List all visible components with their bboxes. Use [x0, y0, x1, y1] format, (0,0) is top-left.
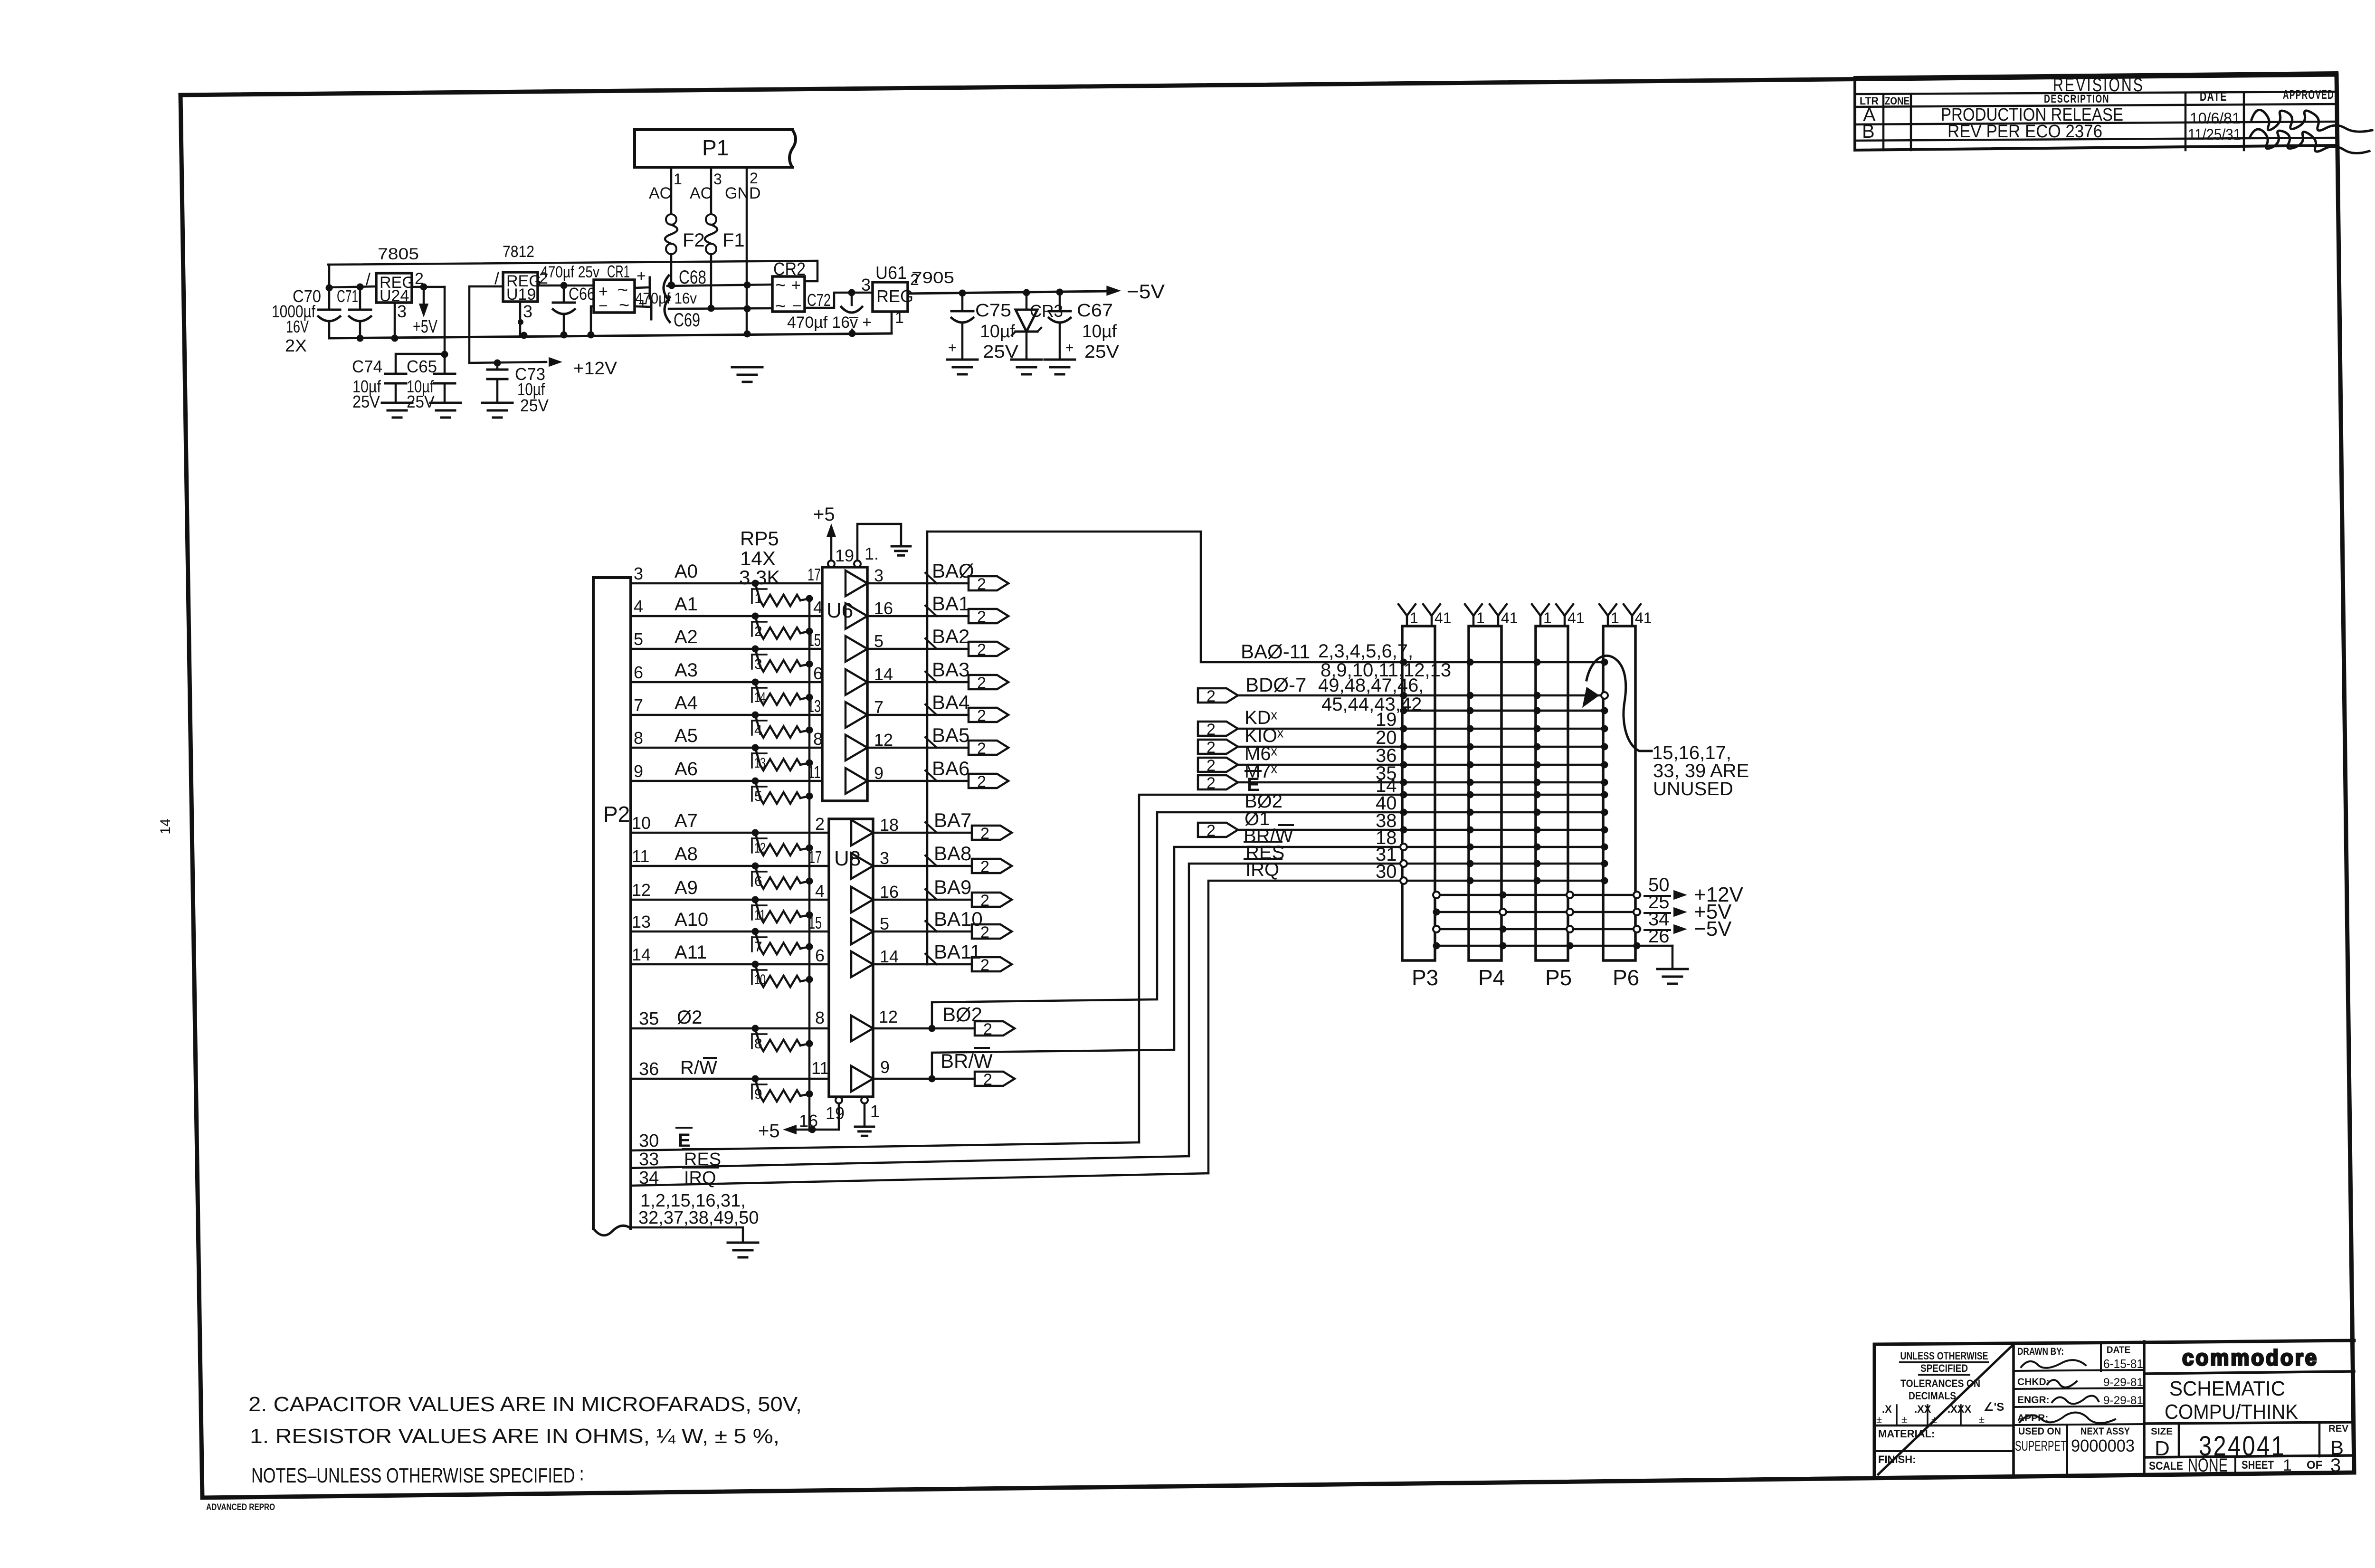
wire -5V output line — [908, 289, 1107, 297]
svg-text:P1: P1 — [702, 135, 729, 160]
connector pin number 38 — [1376, 810, 1397, 831]
P2 pin number 34 — [639, 1168, 659, 1188]
svg-text:+: + — [1065, 340, 1074, 356]
wire IRQ route to connectors — [1208, 881, 1404, 1173]
P4 pin 1 antenna — [1465, 604, 1485, 627]
label 7905 — [912, 269, 954, 287]
svg-text:11: 11 — [632, 846, 649, 866]
+12V label — [573, 359, 617, 379]
P1 pin 1 number — [674, 171, 682, 188]
svg-text:RES: RES — [684, 1150, 721, 1169]
svg-text:12: 12 — [879, 1007, 898, 1026]
svg-text:A10: A10 — [674, 909, 708, 930]
wire BA7 output — [873, 832, 927, 834]
U8 output pin 12 — [879, 1007, 898, 1026]
signal label A1 — [674, 594, 698, 615]
CR2 terminal symbols — [775, 276, 802, 316]
svg-text:SPECIFIED: SPECIFIED — [1920, 1362, 1968, 1374]
signal label A7 — [674, 810, 698, 831]
+5 arrow at U8 — [758, 1121, 797, 1141]
wire BA2 to sheet flag — [927, 648, 969, 650]
svg-text:11: 11 — [754, 907, 766, 923]
net label BØ2 — [942, 1003, 982, 1026]
wire BA4 to sheet flag — [927, 714, 969, 716]
sheet-2 flag BR/W — [975, 1071, 1015, 1089]
svg-text:6: 6 — [754, 874, 762, 889]
P2 pin 14 wire (A11) — [631, 963, 829, 966]
size row line — [2144, 1422, 2354, 1424]
svg-text:2: 2 — [983, 1020, 992, 1038]
C67 plus mark — [1065, 340, 1074, 356]
junction dots row M7ˣ — [1400, 779, 1608, 786]
net label BR/W — [940, 1048, 993, 1072]
connector P5 label — [1545, 965, 1572, 990]
wire bus row E across connectors — [1404, 794, 1605, 796]
U8 output pin 18 — [880, 815, 899, 835]
svg-text:CHKD:: CHKD: — [2017, 1377, 2050, 1387]
svg-text:1.: 1. — [864, 544, 879, 563]
U8 pin 1 stub — [861, 1097, 868, 1126]
revision row B signature — [2250, 129, 2369, 153]
U8 input pin 8 — [815, 1008, 825, 1027]
svg-text:3.3K: 3.3K — [739, 566, 780, 589]
ground under C73 — [482, 403, 513, 418]
note 15,16,17,33,39 ARE UNUSED — [1652, 742, 1749, 799]
net label BA4 — [932, 691, 969, 713]
label 470uf16v (C68/C69 value) — [635, 290, 697, 307]
P2 pin number 14 — [632, 945, 651, 964]
sheet-2 flag M6ˣ — [1198, 757, 1238, 775]
U8 output pin 16 — [880, 882, 899, 902]
svg-text:32,37,38,49,50: 32,37,38,49,50 — [638, 1208, 759, 1228]
RP5 resistor 2 — [752, 613, 813, 640]
bus entry tick BA7 — [925, 822, 937, 833]
title block diagonal — [1878, 1345, 2013, 1474]
U8 buffer triangle BR/W — [851, 1066, 873, 1092]
sheet-2 flag BA10 — [972, 923, 1012, 941]
svg-text:7: 7 — [754, 939, 762, 955]
junction dots row BD-7 lower — [1400, 707, 1608, 714]
U19 pin 2 number — [539, 269, 548, 287]
connector P2 label — [603, 802, 630, 827]
connector P6 label — [1613, 965, 1639, 990]
sheet-2 flag BA1 — [969, 608, 1008, 626]
fuse F1 label — [722, 230, 745, 251]
wire left input drop — [326, 265, 333, 310]
P2 pin number 6 — [634, 663, 643, 682]
svg-text:26: 26 — [1648, 926, 1670, 947]
U6 output pin 3 — [874, 566, 883, 585]
signal label A4 — [674, 693, 698, 713]
ground rail junction dots — [521, 330, 856, 339]
wire +5V power row — [1433, 909, 1641, 916]
bus label BDØ-7 — [1245, 674, 1306, 696]
svg-text:2: 2 — [980, 892, 989, 910]
svg-text:REV PER ECO 2376: REV PER ECO 2376 — [1947, 122, 2102, 142]
title SCHEMATIC — [2169, 1377, 2285, 1400]
capacitor C72 — [841, 293, 862, 313]
svg-text:1: 1 — [1543, 609, 1552, 627]
svg-text:+5: +5 — [758, 1121, 780, 1141]
svg-text:U8: U8 — [834, 847, 861, 870]
ground at connectors — [1657, 969, 1688, 984]
svg-text:19: 19 — [835, 546, 854, 565]
svg-text:36: 36 — [639, 1059, 659, 1079]
P1 pin 1 name AC — [649, 184, 671, 202]
U8 buffer triangle A7 — [851, 820, 873, 846]
svg-text:35: 35 — [639, 1009, 659, 1029]
svg-text:A3: A3 — [674, 660, 698, 681]
P2 pin 10 wire (A7) — [631, 832, 829, 834]
svg-text:A5: A5 — [674, 725, 698, 746]
wire BA1 to sheet flag — [927, 615, 969, 618]
svg-text:41: 41 — [1567, 609, 1585, 627]
svg-text:9: 9 — [634, 761, 643, 781]
finish cell — [1878, 1454, 1916, 1465]
wire M7ˣ row — [1238, 781, 1404, 784]
wire BA10 output — [873, 931, 927, 933]
signal label R/W — [680, 1057, 717, 1078]
capacitor C74 — [385, 374, 406, 402]
wire BA9 output — [873, 899, 927, 901]
svg-text:BA7: BA7 — [934, 809, 971, 831]
svg-text:14: 14 — [754, 690, 766, 705]
ground at U8 pin 1 — [855, 1127, 874, 1136]
svg-text:2: 2 — [1206, 822, 1216, 840]
svg-text:10µf: 10µf — [980, 322, 1015, 342]
svg-text:33: 33 — [639, 1150, 659, 1169]
ground under C67 — [1045, 360, 1075, 374]
P2 pin 7 wire (A4) — [631, 714, 822, 716]
net label KDˣ (right) — [1244, 707, 1278, 728]
wire bus row RES across connectors — [1404, 863, 1605, 865]
buffer U8 box — [829, 819, 873, 1097]
svg-text:P6: P6 — [1613, 965, 1639, 990]
P1 pin 3 lead wire — [710, 167, 712, 215]
svg-text:MATERIAL:: MATERIAL: — [1878, 1428, 1935, 1440]
rev cell — [2319, 1423, 2349, 1459]
svg-text:470µf 25v: 470µf 25v — [541, 263, 599, 281]
U8 pin 16 label — [799, 1111, 818, 1131]
wire ground row drop — [1672, 946, 1674, 968]
pin label 50 — [1644, 874, 1670, 896]
svg-text:A1: A1 — [674, 594, 698, 615]
capacitor C75 — [951, 293, 973, 359]
P6 pin 41 antenna — [1624, 604, 1652, 627]
svg-text:+5V: +5V — [413, 317, 437, 337]
svg-text:11/25/31: 11/25/31 — [2188, 126, 2241, 143]
wire BA8 to sheet flag — [927, 865, 972, 867]
P2 pin 13 wire (A10) — [631, 931, 829, 933]
U19 REG text — [506, 272, 541, 304]
U6 pin 19 label — [835, 546, 854, 565]
svg-text:9: 9 — [880, 1057, 890, 1077]
U61 label — [875, 263, 907, 283]
svg-text:BA2: BA2 — [932, 625, 969, 647]
svg-text:2: 2 — [1206, 739, 1216, 757]
wire ground power row — [1433, 942, 1673, 950]
wire top rail (7805/7812 input) — [328, 261, 817, 281]
svg-text:1: 1 — [1611, 609, 1619, 627]
svg-text:4: 4 — [815, 881, 825, 901]
svg-text:2: 2 — [983, 1071, 992, 1089]
RP5 resistor 4 — [752, 712, 813, 739]
sheet-2 flag BAØ — [969, 575, 1008, 593]
RP5 resistor 1 — [752, 580, 813, 607]
capacitor C67 — [1049, 292, 1071, 359]
P6 pin 1 antenna — [1599, 604, 1619, 627]
junction dots row BAØ-11 — [1400, 659, 1608, 666]
bus label BAØ-11 — [1241, 640, 1310, 663]
wire BA11 to sheet flag — [927, 963, 972, 966]
P2 pin 36 wire (R/W) — [631, 1078, 829, 1080]
svg-text:5: 5 — [754, 789, 762, 804]
svg-text:25V: 25V — [520, 396, 549, 415]
wire U19 input route — [469, 286, 503, 363]
wire +5 to U8 pin19 — [794, 1126, 839, 1133]
sheet-2 flag BA8 — [972, 858, 1012, 876]
capacitor C73 — [487, 363, 507, 402]
svg-text:P5: P5 — [1545, 965, 1572, 990]
svg-text:C67: C67 — [1077, 301, 1113, 321]
P2 pin number 4 — [634, 597, 643, 616]
svg-text:REG: REG — [876, 286, 913, 306]
RP5 resistor 8 — [752, 1025, 813, 1052]
svg-text:B: B — [1862, 121, 1875, 142]
wire CR1 ac top to C68 — [635, 287, 650, 288]
C75 plus mark — [948, 340, 957, 356]
wire KDˣ row — [1238, 728, 1404, 730]
wire BA6 output — [867, 780, 927, 782]
net label M7ˣ (right) — [1244, 761, 1278, 782]
pin label 26 — [1648, 926, 1670, 947]
svg-text:9000003: 9000003 — [2071, 1436, 2135, 1455]
svg-text:13: 13 — [632, 912, 651, 931]
C68 plus mark — [636, 267, 646, 285]
RP5 resistor 11 — [752, 896, 813, 923]
svg-text:8: 8 — [815, 1008, 825, 1027]
svg-text:ENGR:: ENGR: — [2017, 1395, 2050, 1406]
wire BA4 output — [867, 714, 927, 716]
svg-text:7805: 7805 — [378, 245, 419, 263]
wire RES route to connectors — [1189, 864, 1404, 1156]
connector pin number 20 — [1376, 727, 1397, 748]
signal label A8 — [674, 844, 698, 865]
svg-text:E: E — [678, 1130, 691, 1151]
sheet-2 flag BA3 — [969, 674, 1008, 692]
svg-text:11: 11 — [811, 1058, 829, 1078]
svg-text:10: 10 — [754, 972, 766, 988]
svg-text:7812: 7812 — [503, 243, 534, 261]
net label BA1 — [932, 592, 969, 615]
svg-text:25V: 25V — [352, 392, 380, 411]
svg-text:BA9: BA9 — [934, 876, 971, 898]
used-on cell — [2015, 1425, 2135, 1475]
sheet-2 flag M7ˣ — [1198, 774, 1238, 792]
sheet-2 flag KIOˣ — [1198, 739, 1238, 757]
wire 7805 input node line — [329, 284, 376, 291]
net label BA7 — [934, 809, 971, 831]
svg-text:SHEET: SHEET — [2242, 1459, 2274, 1472]
svg-text:BA5: BA5 — [932, 724, 969, 746]
P1 pin 2 name GND — [725, 184, 761, 202]
connector pin number 35 — [1376, 763, 1397, 784]
U6 output pin 14 — [874, 665, 893, 684]
regulator U19 box — [503, 272, 538, 302]
net label BA11 — [934, 941, 981, 963]
wire bus row M6ˣ across connectors — [1404, 764, 1605, 766]
CR1 minus stub to ground rail — [591, 306, 594, 335]
svg-text:30: 30 — [639, 1131, 659, 1151]
wire BA11 output — [873, 963, 927, 966]
RP5 resistor 6 — [752, 863, 813, 890]
BDØ-7 pin list — [1318, 675, 1424, 715]
svg-text:A6: A6 — [674, 759, 698, 779]
sheet-2 flag BA9 — [972, 892, 1012, 910]
svg-text:41: 41 — [1434, 609, 1452, 627]
title block outline — [1874, 1340, 2354, 1478]
U6 output pin 16 — [874, 599, 893, 618]
svg-text:FINISH:: FINISH: — [1878, 1454, 1916, 1465]
wire BAØ output — [867, 582, 927, 585]
P2 pin 34 wire (IRQ) — [631, 1173, 1208, 1186]
connector P4 body — [1469, 626, 1501, 960]
wire BD second row — [1402, 710, 1605, 712]
signal label IRQ — [683, 1168, 718, 1188]
+12V arrow — [549, 357, 562, 367]
signal label A11 — [674, 942, 707, 963]
connector P3 label — [1412, 965, 1438, 990]
wire BA7 to sheet flag — [927, 832, 972, 834]
label 470uf 25v (C66 value) — [541, 263, 599, 281]
svg-text:BA1: BA1 — [932, 592, 969, 615]
svg-text:C69: C69 — [674, 310, 700, 331]
sheet-2 flag KDˣ — [1198, 721, 1238, 739]
svg-text:C74: C74 — [352, 357, 382, 376]
P2 pin 33 wire (RES) — [631, 1156, 1189, 1168]
U6 input pin 6 — [813, 664, 823, 683]
ground under C75 — [947, 360, 978, 374]
U6 label — [826, 599, 853, 622]
svg-text:3: 3 — [861, 275, 871, 295]
svg-text:30: 30 — [1376, 861, 1397, 882]
svg-text:6-15-81: 6-15-81 — [2103, 1357, 2143, 1371]
wire AC2 node line — [669, 305, 772, 313]
wire +5V branch down — [441, 287, 448, 374]
svg-text:2: 2 — [1206, 757, 1216, 775]
svg-text:ZONE: ZONE — [1885, 95, 1909, 107]
regulator U24 box — [376, 273, 412, 303]
wire BA3 to sheet flag — [927, 681, 969, 684]
junction dots row KIOˣ — [1400, 743, 1608, 751]
signal label A9 — [674, 877, 698, 898]
svg-text:commodore: commodore — [2182, 1345, 2318, 1370]
note 2 capacitor values — [248, 1393, 802, 1416]
bus entry tick BA9 — [925, 889, 937, 900]
svg-text:F1: F1 — [722, 230, 745, 251]
svg-text:P4: P4 — [1478, 965, 1505, 990]
signal label Ø2 — [677, 1007, 702, 1028]
wire U24 output node — [412, 284, 445, 291]
U8 input pin 15 — [808, 913, 822, 932]
svg-text:BDØ-7: BDØ-7 — [1245, 674, 1306, 696]
net label BØ2 (right) — [1244, 791, 1282, 812]
diode CR3 (zener) — [1012, 293, 1041, 359]
svg-text:41: 41 — [1501, 609, 1518, 627]
ground under CR3 — [1011, 360, 1042, 374]
net label IRQ (right) — [1244, 859, 1282, 880]
svg-text:−: − — [598, 297, 608, 315]
junction dots row BDØ-7 — [1400, 692, 1608, 699]
svg-text:P3: P3 — [1412, 965, 1438, 990]
U24 pin 2 number — [415, 270, 424, 288]
svg-text:1: 1 — [754, 591, 762, 607]
svg-text:GND: GND — [725, 184, 761, 202]
RP5 resistor 13 — [752, 744, 813, 771]
U6 pin 1 label — [864, 544, 879, 563]
net label BA9 — [934, 876, 971, 898]
ADVANCED REPRO print mark — [206, 1502, 275, 1512]
svg-text:2: 2 — [977, 641, 986, 659]
svg-text:ADVANCED REPRO: ADVANCED REPRO — [206, 1502, 275, 1512]
wire BA1 output — [867, 615, 927, 618]
svg-text:2: 2 — [980, 858, 989, 876]
RP5 resistor 7 — [752, 928, 813, 955]
svg-text:10µf: 10µf — [1082, 322, 1117, 342]
title block bottom edge — [1874, 1473, 2354, 1478]
wire bus row BDØ-7 across connectors — [1404, 694, 1605, 697]
CR1 terminal symbols — [598, 280, 629, 315]
svg-text:A11: A11 — [674, 942, 707, 963]
junction dots row BØ2 — [1400, 809, 1608, 816]
U8 buffer triangle A8 — [851, 853, 873, 879]
RP5 common bus wire — [808, 599, 811, 1131]
wire E route to connectors — [1139, 795, 1404, 1142]
U8 pin 19 stub — [836, 1097, 842, 1130]
wire BA6 to sheet flag — [927, 780, 969, 782]
U8 pin 1 label — [870, 1102, 880, 1121]
revision row A line — [1855, 122, 2337, 124]
svg-text:RP5: RP5 — [740, 527, 779, 550]
revisions column lines — [1855, 94, 2337, 150]
CR1 label — [607, 262, 630, 281]
svg-text:COMPU/THINK: COMPU/THINK — [2165, 1400, 2298, 1424]
svg-text:2: 2 — [910, 271, 919, 289]
svg-text:+: + — [638, 295, 647, 312]
U8 output pin 3 — [880, 848, 889, 868]
scale row — [2149, 1455, 2341, 1476]
svg-text:SCALE: SCALE — [2149, 1460, 2183, 1473]
U8 input pin 6 — [815, 946, 825, 965]
C67 labels — [1077, 301, 1120, 362]
svg-text:+: + — [636, 267, 646, 285]
svg-text:±: ± — [1979, 1414, 1985, 1425]
svg-text:C65: C65 — [407, 357, 437, 376]
svg-text:+: + — [791, 276, 801, 295]
svg-text:10/6/81: 10/6/81 — [2190, 110, 2241, 127]
-5V arrow (connector) — [1673, 917, 1732, 941]
net label BA6 — [932, 757, 969, 779]
P2 pin number 3 — [634, 564, 643, 583]
wire bus row BR/W across connectors — [1404, 846, 1605, 848]
svg-text:±: ± — [1901, 1414, 1907, 1425]
sheet-2 flag BDØ-7 — [1198, 687, 1238, 705]
scale row line — [2144, 1455, 2354, 1457]
svg-text:UNLESS OTHERWISE: UNLESS OTHERWISE — [1900, 1350, 1988, 1362]
svg-text:C75: C75 — [975, 301, 1011, 321]
wire CR2 minus out — [805, 289, 873, 308]
U6 buffer triangle A1 — [845, 603, 867, 629]
